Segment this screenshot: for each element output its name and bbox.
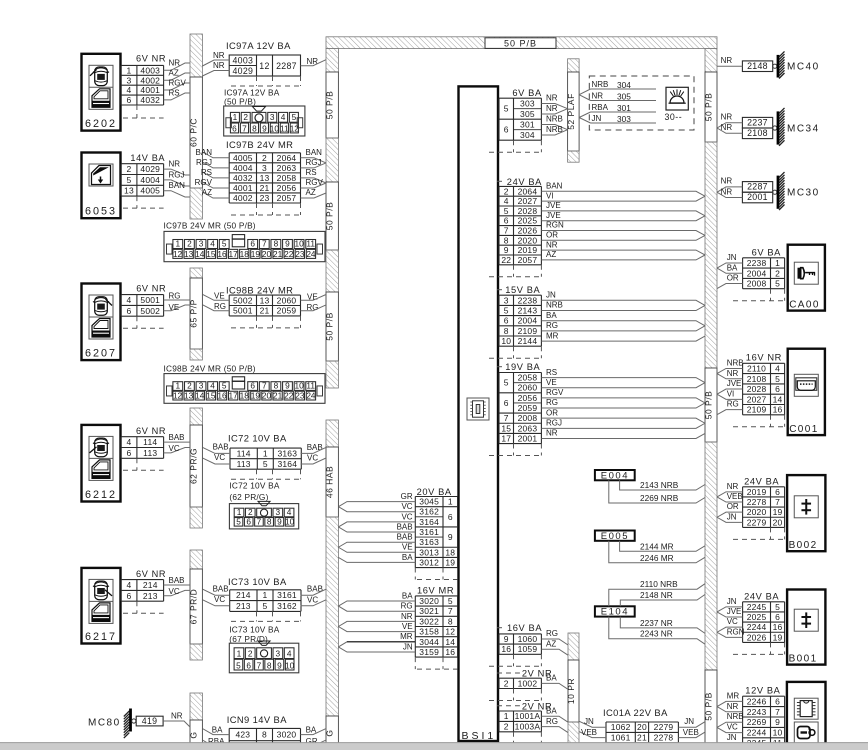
svg-text:3044: 3044 xyxy=(419,637,439,647)
svg-text:RS: RS xyxy=(546,368,557,377)
svg-text:2279: 2279 xyxy=(747,517,767,527)
svg-text:BA: BA xyxy=(546,674,557,683)
svg-text:6V NR: 6V NR xyxy=(136,426,166,436)
svg-text:1062: 1062 xyxy=(611,722,631,732)
svg-text:2244: 2244 xyxy=(747,622,767,632)
ground symbol MC34 xyxy=(773,108,785,146)
wires 6V BA to 52 PLAF xyxy=(541,94,567,135)
svg-text:2019: 2019 xyxy=(747,487,767,497)
svg-text:1: 1 xyxy=(448,497,453,507)
table 16V MR left xyxy=(415,596,457,657)
svg-text:16V MR: 16V MR xyxy=(417,585,454,595)
svg-text:1061: 1061 xyxy=(611,733,631,743)
svg-text:1: 1 xyxy=(263,590,268,600)
svg-text:NR: NR xyxy=(721,56,733,65)
svg-text:2110: 2110 xyxy=(747,363,766,373)
svg-text:2063: 2063 xyxy=(518,423,538,433)
svg-text:5: 5 xyxy=(504,206,509,216)
svg-text:OR: OR xyxy=(546,408,558,417)
wires IC98B xyxy=(202,291,326,312)
svg-text:16: 16 xyxy=(217,391,227,401)
svg-text:RS: RS xyxy=(306,168,317,177)
svg-text:BAN: BAN xyxy=(546,182,563,191)
svg-text:7: 7 xyxy=(775,497,780,507)
svg-text:1001A: 1001A xyxy=(515,711,541,721)
svg-text:BA: BA xyxy=(212,726,223,735)
table IC98B xyxy=(229,295,300,316)
wires E104 xyxy=(609,579,705,644)
splice boxes MC40 xyxy=(742,61,772,72)
svg-text:NR: NR xyxy=(721,113,733,122)
pin connector IC97A 12-way xyxy=(224,106,305,136)
svg-text:2: 2 xyxy=(243,112,248,122)
svg-text:11: 11 xyxy=(306,239,315,249)
svg-text:VC: VC xyxy=(214,595,225,604)
svg-text:4032: 4032 xyxy=(233,173,253,183)
svg-text:6V NR: 6V NR xyxy=(136,569,166,579)
svg-text:3: 3 xyxy=(199,381,204,391)
svg-text:JVE: JVE xyxy=(727,379,742,388)
switch unit 6217 xyxy=(82,568,121,644)
wires E005 xyxy=(609,541,705,563)
svg-text:23: 23 xyxy=(295,249,305,259)
svg-text:BAB: BAB xyxy=(213,443,229,452)
svg-text:BA: BA xyxy=(546,311,557,320)
svg-text:NR: NR xyxy=(213,61,225,70)
svg-text:JN: JN xyxy=(684,717,694,726)
svg-text:E005: E005 xyxy=(601,531,629,542)
svg-text:2279: 2279 xyxy=(654,722,674,732)
svg-text:OR: OR xyxy=(546,231,558,240)
svg-text:2: 2 xyxy=(775,268,780,278)
svg-text:21: 21 xyxy=(273,249,283,259)
svg-text:2019: 2019 xyxy=(518,245,538,255)
svg-text:VE: VE xyxy=(402,622,413,631)
svg-text:19: 19 xyxy=(773,632,783,642)
svg-text:2057: 2057 xyxy=(277,193,297,203)
svg-text:305: 305 xyxy=(617,91,631,101)
svg-text:BAN: BAN xyxy=(169,181,186,190)
svg-text:9: 9 xyxy=(285,381,290,391)
svg-text:RG: RG xyxy=(214,302,226,311)
svg-text:21: 21 xyxy=(637,733,647,743)
svg-text:9: 9 xyxy=(504,634,509,644)
svg-text:1: 1 xyxy=(175,381,180,391)
svg-text:2243 NR: 2243 NR xyxy=(640,629,673,639)
svg-text:9: 9 xyxy=(262,123,267,133)
wiring harness bar 50 P/B top xyxy=(326,37,717,49)
svg-text:6207: 6207 xyxy=(85,348,117,360)
svg-text:4029: 4029 xyxy=(232,66,253,76)
svg-text:RGV: RGV xyxy=(195,178,213,187)
svg-text:4: 4 xyxy=(210,239,215,249)
svg-text:NR: NR xyxy=(169,160,181,169)
svg-text:4: 4 xyxy=(210,381,215,391)
svg-text:5: 5 xyxy=(504,378,509,388)
svg-text:10: 10 xyxy=(285,661,295,671)
splice boxes MC30 xyxy=(742,182,772,203)
svg-text:MR: MR xyxy=(546,331,559,340)
svg-text:VC: VC xyxy=(727,723,738,732)
svg-text:9: 9 xyxy=(277,661,282,671)
svg-text:304: 304 xyxy=(520,130,535,140)
svg-text:RGJ: RGJ xyxy=(169,170,185,179)
svg-text:5: 5 xyxy=(775,374,780,384)
svg-text:IC97B 24V MR (50 P/B): IC97B 24V MR (50 P/B) xyxy=(164,221,256,231)
svg-text:21: 21 xyxy=(260,306,270,316)
component B002 xyxy=(787,475,825,551)
ground symbol MC40 xyxy=(773,51,785,78)
svg-text:15: 15 xyxy=(206,249,216,259)
svg-text:6: 6 xyxy=(504,316,509,326)
svg-text:6: 6 xyxy=(775,696,780,706)
svg-text:4002: 4002 xyxy=(233,193,253,203)
svg-text:50 P/B: 50 P/B xyxy=(325,91,335,120)
svg-text:NR: NR xyxy=(546,94,558,103)
svg-text:NR: NR xyxy=(721,177,733,186)
svg-text:2243: 2243 xyxy=(747,707,767,717)
svg-text:4004: 4004 xyxy=(233,163,253,173)
svg-text:2238: 2238 xyxy=(747,258,767,268)
svg-text:214: 214 xyxy=(143,580,158,590)
svg-text:IC72 10V BA: IC72 10V BA xyxy=(229,480,279,490)
svg-text:G: G xyxy=(325,729,335,736)
svg-text:3: 3 xyxy=(276,649,281,659)
svg-text:7: 7 xyxy=(775,707,780,717)
table bottom-right 12V BA xyxy=(743,696,785,748)
table 20V BA left xyxy=(415,497,457,568)
svg-text:9: 9 xyxy=(285,239,290,249)
svg-text:19V BA: 19V BA xyxy=(505,362,540,372)
svg-text:4001: 4001 xyxy=(140,85,160,95)
svg-text:IC98B 24V MR: IC98B 24V MR xyxy=(226,284,293,295)
svg-text:65 P/P: 65 P/P xyxy=(189,299,199,328)
svg-text:8: 8 xyxy=(274,239,279,249)
svg-text:9: 9 xyxy=(775,717,780,727)
wires IC72 xyxy=(202,443,326,465)
svg-text:6V BA: 6V BA xyxy=(752,247,782,257)
svg-text:NRB: NRB xyxy=(546,125,563,134)
svg-text:2004: 2004 xyxy=(747,268,767,278)
svg-text:5002: 5002 xyxy=(233,295,253,305)
svg-text:2059: 2059 xyxy=(277,306,297,316)
svg-text:2269 NRB: 2269 NRB xyxy=(640,493,679,503)
svg-text:6202: 6202 xyxy=(85,118,117,130)
svg-text:B001: B001 xyxy=(789,654,818,665)
connector bar 46 HAB xyxy=(325,420,339,750)
svg-text:4004: 4004 xyxy=(140,175,160,185)
svg-text:RGJ: RGJ xyxy=(546,419,562,428)
svg-text:AZ: AZ xyxy=(546,250,556,259)
svg-text:AZ: AZ xyxy=(546,639,556,648)
svg-text:JVE: JVE xyxy=(546,201,561,210)
svg-text:1: 1 xyxy=(775,258,780,268)
svg-text:12: 12 xyxy=(173,249,183,259)
svg-text:BAN: BAN xyxy=(306,148,323,157)
wires 20V BA from 46 HAB bar xyxy=(338,492,415,562)
table 6212 pins xyxy=(121,437,164,459)
svg-text:NR: NR xyxy=(307,57,319,66)
wires 6212 pins to bar xyxy=(164,433,190,453)
svg-text:10: 10 xyxy=(294,381,304,391)
svg-text:2: 2 xyxy=(262,153,267,163)
svg-text:JN: JN xyxy=(727,733,737,742)
table 6202 pins xyxy=(121,65,164,105)
svg-text:2064: 2064 xyxy=(518,186,538,196)
svg-text:6V BA: 6V BA xyxy=(512,88,542,98)
switch unit 6212 xyxy=(82,425,121,502)
svg-text:2144 MR: 2144 MR xyxy=(640,541,674,551)
svg-text:22: 22 xyxy=(284,391,294,401)
svg-text:16: 16 xyxy=(773,622,783,632)
svg-text:VE: VE xyxy=(546,378,557,387)
ground symbol MC30 xyxy=(773,172,785,210)
svg-text:17: 17 xyxy=(229,249,239,259)
svg-text:5: 5 xyxy=(448,596,453,606)
lamp icon 30 xyxy=(665,87,689,122)
svg-text:2278: 2278 xyxy=(654,733,674,743)
svg-text:214: 214 xyxy=(236,590,251,600)
svg-text:VEB: VEB xyxy=(581,728,597,737)
svg-text:G: G xyxy=(189,731,199,738)
svg-text:JN: JN xyxy=(727,253,737,262)
svg-text:NRB: NRB xyxy=(592,80,609,89)
svg-text:50 P/B: 50 P/B xyxy=(704,692,714,721)
svg-text:13: 13 xyxy=(184,249,194,259)
splice E005 xyxy=(595,531,635,542)
svg-text:VC: VC xyxy=(401,512,412,521)
svg-text:2109: 2109 xyxy=(747,405,767,415)
pin connector IC72 10-way xyxy=(229,501,298,529)
svg-text:6053: 6053 xyxy=(85,206,117,218)
svg-text:BAB: BAB xyxy=(397,533,413,542)
svg-text:6: 6 xyxy=(504,125,509,135)
svg-text:NR: NR xyxy=(727,369,739,378)
svg-text:MC30: MC30 xyxy=(787,188,820,199)
svg-text:JN: JN xyxy=(592,114,602,123)
wires IC97B right xyxy=(301,148,327,198)
svg-text:16V NR: 16V NR xyxy=(746,353,782,363)
svg-text:BAB: BAB xyxy=(213,584,229,593)
svg-text:2056: 2056 xyxy=(518,393,538,403)
svg-text:JVE: JVE xyxy=(727,607,742,616)
svg-text:5: 5 xyxy=(263,459,268,469)
svg-text:RS: RS xyxy=(201,168,212,177)
svg-text:2027: 2027 xyxy=(747,394,767,404)
svg-text:4: 4 xyxy=(504,196,509,206)
svg-text:2001: 2001 xyxy=(747,192,768,202)
svg-text:7: 7 xyxy=(262,239,267,249)
svg-text:5: 5 xyxy=(292,112,297,122)
svg-text:4: 4 xyxy=(287,649,292,659)
svg-text:6: 6 xyxy=(250,239,255,249)
svg-text:VI: VI xyxy=(546,191,554,200)
svg-text:16: 16 xyxy=(445,647,455,657)
svg-text:10: 10 xyxy=(270,123,280,133)
wires to MC30 xyxy=(717,177,742,198)
connector bar 62 PR/G xyxy=(189,408,203,528)
table 6207 pins xyxy=(121,295,164,317)
svg-text:3021: 3021 xyxy=(419,606,439,616)
svg-text:301: 301 xyxy=(520,119,535,129)
svg-text:16: 16 xyxy=(501,644,511,654)
svg-text:114: 114 xyxy=(237,448,251,458)
svg-text:62 PR/G: 62 PR/G xyxy=(189,448,199,484)
svg-text:RS: RS xyxy=(169,89,180,98)
svg-text:3162: 3162 xyxy=(277,601,297,611)
svg-text:11: 11 xyxy=(306,381,315,391)
svg-text:RGV: RGV xyxy=(169,79,187,88)
svg-text:RG: RG xyxy=(169,292,181,301)
svg-text:JN: JN xyxy=(584,717,594,726)
svg-text:2001: 2001 xyxy=(518,433,538,443)
pin connector IC73 10-way xyxy=(229,641,298,673)
svg-text:15: 15 xyxy=(501,423,511,433)
svg-text:3: 3 xyxy=(270,112,275,122)
pin connector IC98B 24-way xyxy=(164,374,325,404)
svg-text:4001: 4001 xyxy=(233,183,253,193)
svg-text:BAB: BAB xyxy=(169,433,185,442)
svg-text:2108: 2108 xyxy=(747,374,767,384)
table BSI 6V BA xyxy=(499,98,541,140)
svg-text:19: 19 xyxy=(773,507,783,517)
svg-text:AZ: AZ xyxy=(169,69,179,78)
svg-text:IC73 10V BA: IC73 10V BA xyxy=(228,576,287,587)
svg-text:RGN: RGN xyxy=(727,627,745,636)
wires 6202 pins to bar xyxy=(164,59,190,100)
svg-text:5001: 5001 xyxy=(140,295,160,305)
svg-text:4029: 4029 xyxy=(140,164,160,174)
svg-text:213: 213 xyxy=(143,591,158,601)
svg-text:IC73 10V BA: IC73 10V BA xyxy=(229,624,279,634)
svg-text:BA: BA xyxy=(402,591,413,600)
table B002 24V BA xyxy=(743,487,785,528)
svg-text:2025: 2025 xyxy=(747,612,767,622)
svg-text:24: 24 xyxy=(306,249,316,259)
svg-text:113: 113 xyxy=(237,459,251,469)
table B001 24V BA xyxy=(743,602,785,643)
svg-text:9: 9 xyxy=(448,532,453,542)
switch unit 6202 xyxy=(82,54,121,131)
table CA00 6V BA xyxy=(743,258,785,289)
pin connector IC97B 24-way xyxy=(164,231,325,261)
svg-text:4: 4 xyxy=(287,507,292,517)
svg-text:(62 PR/G): (62 PR/G) xyxy=(229,492,268,502)
wires E004 xyxy=(609,480,705,503)
svg-text:10: 10 xyxy=(501,336,511,346)
svg-text:2060: 2060 xyxy=(518,383,538,393)
svg-text:2: 2 xyxy=(187,381,192,391)
wires 16V MR from 46 HAB bar xyxy=(338,591,415,652)
connector bar 52 PLAF xyxy=(566,59,579,162)
svg-text:2008: 2008 xyxy=(747,279,767,289)
svg-text:2237: 2237 xyxy=(747,117,768,127)
svg-text:3020: 3020 xyxy=(419,596,439,606)
wires BSI1 2V NR b to 10 PR bar xyxy=(541,706,568,732)
svg-text:6V NR: 6V NR xyxy=(136,284,166,294)
svg-text:21: 21 xyxy=(273,391,283,401)
wires 52 PLAF to lamp box xyxy=(579,89,590,123)
table 16V BA xyxy=(499,634,541,654)
svg-text:3045: 3045 xyxy=(419,497,439,507)
wires BSI1 15V BA to bar xyxy=(541,291,705,342)
splice boxes MC34 xyxy=(742,117,772,138)
svg-text:BA: BA xyxy=(727,263,738,272)
svg-text:50 P/B: 50 P/B xyxy=(504,39,537,49)
svg-text:6217: 6217 xyxy=(85,631,117,643)
svg-text:BAB: BAB xyxy=(169,576,185,585)
wires from bar to B001 24V BA xyxy=(717,597,745,637)
wires IC01A xyxy=(579,717,705,737)
svg-text:2148 NR: 2148 NR xyxy=(640,590,673,600)
svg-text:18: 18 xyxy=(445,547,455,557)
svg-text:50 P/B: 50 P/B xyxy=(325,312,335,341)
svg-text:4003: 4003 xyxy=(232,56,253,66)
wires BSI1 16V BA to 10 PR bar xyxy=(541,629,568,655)
component B001 xyxy=(787,590,825,665)
svg-text:NR: NR xyxy=(721,187,733,196)
svg-text:2027: 2027 xyxy=(518,196,538,206)
table ICN9 xyxy=(229,728,300,750)
switch unit 6207 xyxy=(82,284,121,361)
svg-text:VC: VC xyxy=(307,454,318,463)
svg-text:8: 8 xyxy=(252,123,257,133)
svg-text:MR: MR xyxy=(727,691,740,700)
svg-text:RG: RG xyxy=(546,321,558,330)
svg-text:12V BA: 12V BA xyxy=(745,686,780,696)
svg-text:301: 301 xyxy=(617,103,631,113)
wires IC97A xyxy=(202,51,326,76)
svg-text:NR: NR xyxy=(401,612,413,621)
svg-text:2237 NR: 2237 NR xyxy=(640,618,673,628)
table 6217 pins xyxy=(121,580,164,602)
svg-text:2020: 2020 xyxy=(747,507,767,517)
svg-text:2020: 2020 xyxy=(518,235,538,245)
svg-text:8: 8 xyxy=(504,235,509,245)
svg-text:IC97B 24V MR: IC97B 24V MR xyxy=(226,139,293,150)
svg-text:2008: 2008 xyxy=(518,413,538,423)
svg-text:114: 114 xyxy=(143,437,157,447)
svg-text:RG: RG xyxy=(727,400,739,409)
svg-text:13: 13 xyxy=(260,295,270,305)
table IC01A xyxy=(606,722,678,743)
svg-text:2: 2 xyxy=(504,722,509,732)
svg-text:NR: NR xyxy=(546,429,558,438)
connector bar 10 PR xyxy=(566,633,579,750)
ECU BSI1 xyxy=(459,86,499,741)
svg-text:213: 213 xyxy=(236,601,251,611)
svg-text:13: 13 xyxy=(184,391,194,401)
wires 6217 pins to bar xyxy=(164,576,190,596)
svg-text:419: 419 xyxy=(142,716,158,726)
svg-text:VC: VC xyxy=(214,453,225,462)
svg-text:NRB: NRB xyxy=(546,115,563,124)
svg-text:304: 304 xyxy=(617,80,631,90)
svg-text:4005: 4005 xyxy=(140,186,160,196)
svg-text:21: 21 xyxy=(260,183,270,193)
svg-text:GR: GR xyxy=(401,492,413,501)
svg-text:3: 3 xyxy=(262,163,267,173)
svg-text:2287: 2287 xyxy=(276,61,297,71)
table IC97B xyxy=(229,153,300,203)
svg-text:1: 1 xyxy=(504,711,509,721)
svg-text:2143 NRB: 2143 NRB xyxy=(640,480,679,490)
svg-text:VC: VC xyxy=(401,502,412,511)
svg-text:7: 7 xyxy=(504,226,509,236)
wires ICN9 xyxy=(202,726,326,747)
svg-text:3163: 3163 xyxy=(419,537,439,547)
connector bar G left xyxy=(189,693,203,750)
